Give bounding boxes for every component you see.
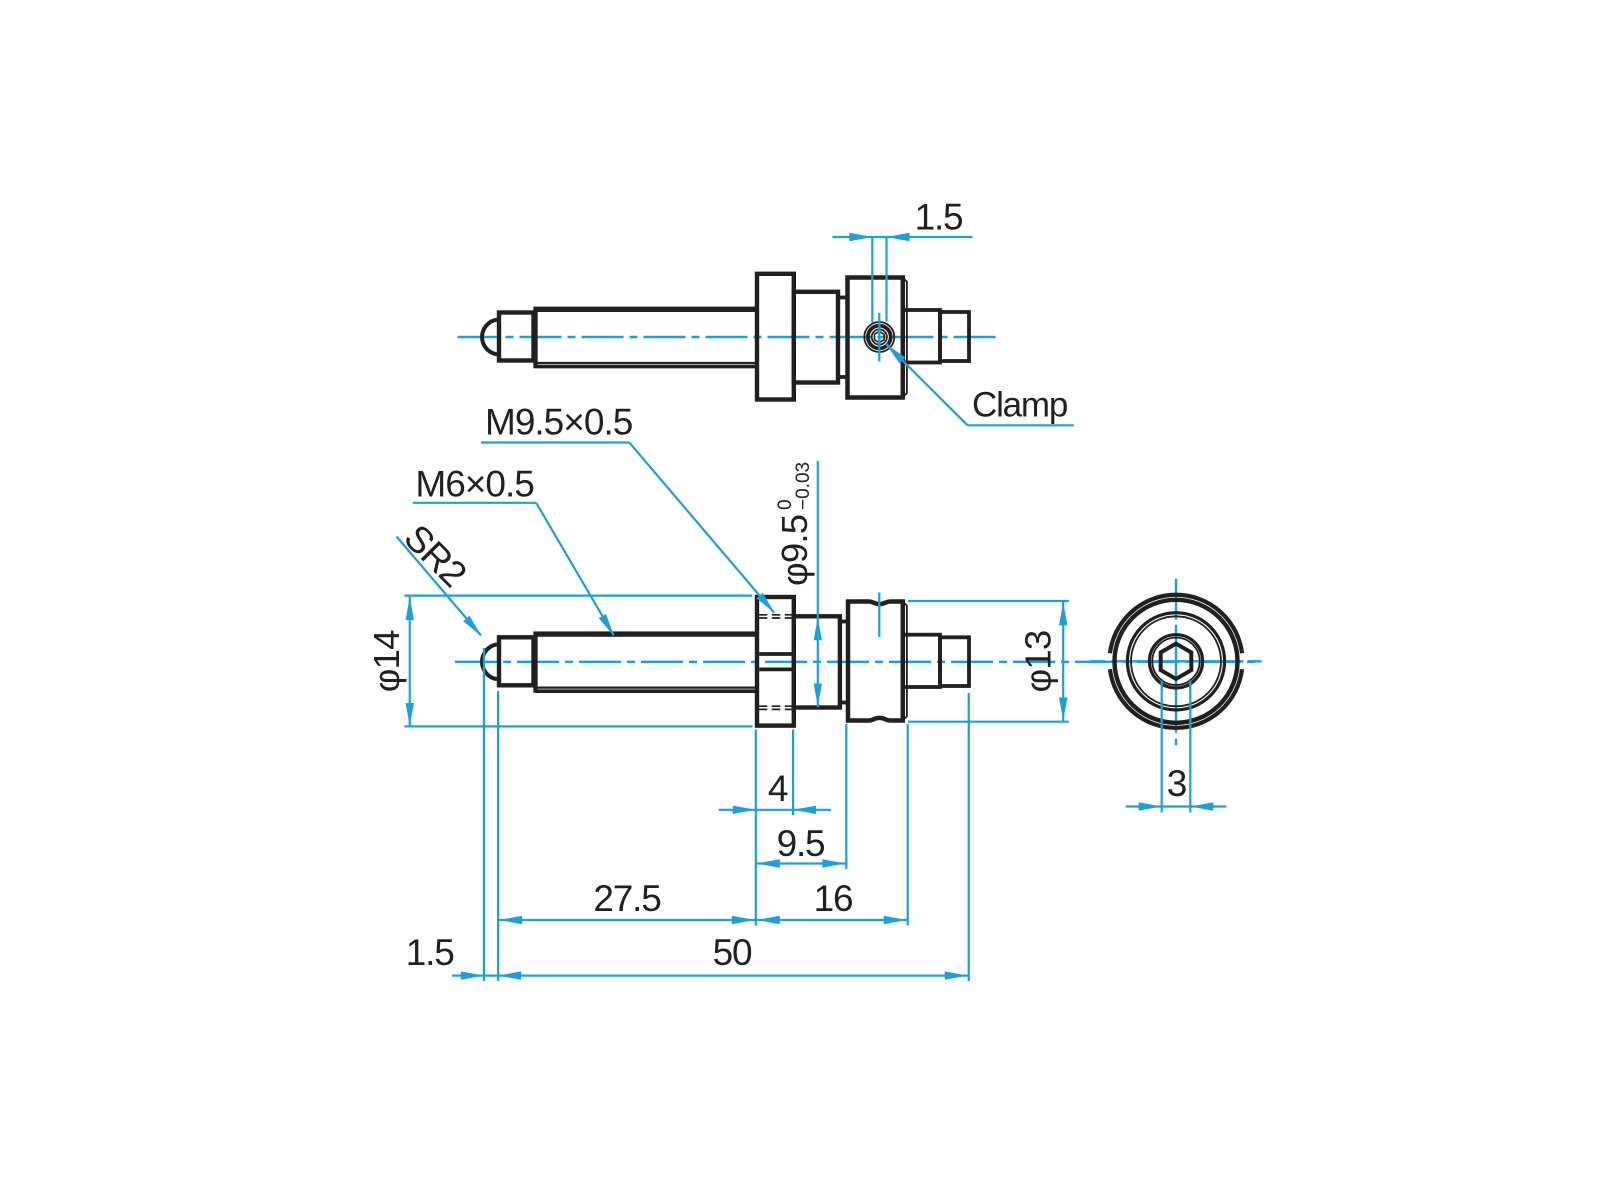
svg-text:4: 4 [768, 768, 788, 809]
svg-text:−0.03: −0.03 [793, 462, 814, 510]
svg-text:φ14: φ14 [366, 630, 407, 692]
svg-text:3: 3 [1167, 763, 1186, 804]
svg-text:27.5: 27.5 [593, 878, 661, 919]
svg-text:16: 16 [814, 878, 853, 919]
svg-text:50: 50 [713, 932, 752, 973]
svg-text:M6×0.5: M6×0.5 [415, 463, 534, 504]
svg-text:Clamp: Clamp [972, 386, 1067, 425]
svg-text:1.5: 1.5 [915, 197, 963, 238]
svg-text:φ13: φ13 [1018, 631, 1059, 693]
svg-text:9.5: 9.5 [777, 823, 825, 864]
svg-text:1.5: 1.5 [406, 932, 454, 973]
svg-text:φ9.5: φ9.5 [774, 515, 815, 586]
svg-text:M9.5×0.5: M9.5×0.5 [485, 402, 633, 443]
